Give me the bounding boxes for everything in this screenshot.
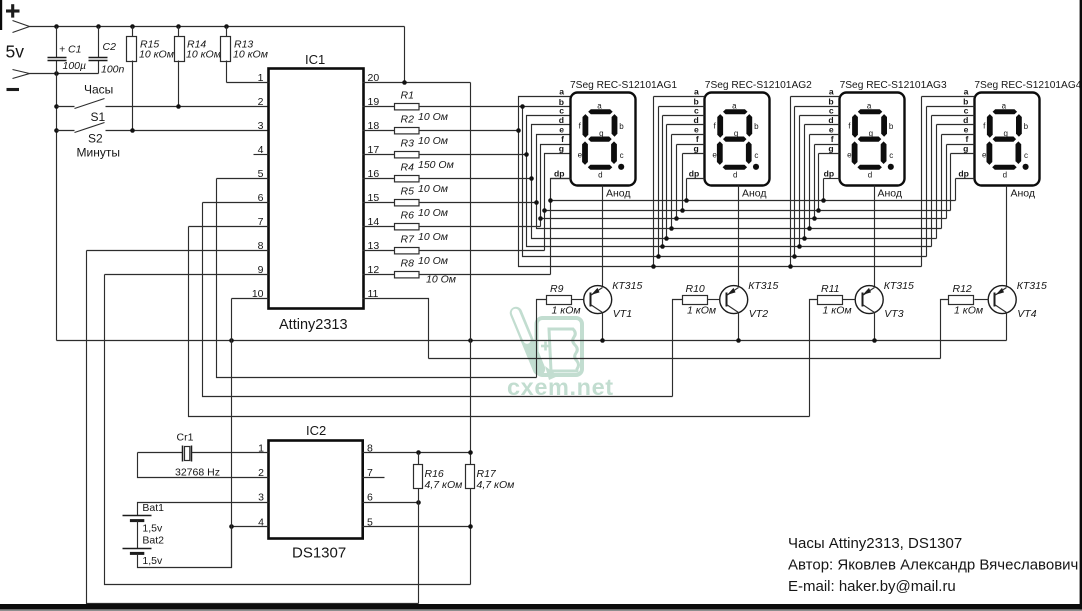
svg-text:Минуты: Минуты bbox=[77, 146, 120, 160]
7-segment display HG3 7Seg REC-S12101AG3 bbox=[840, 80, 947, 186]
svg-text:R3: R3 bbox=[401, 138, 415, 150]
base feed wire VT2 bbox=[673, 300, 683, 397]
svg-text:c: c bbox=[754, 151, 758, 160]
node minus/C1 bbox=[54, 71, 59, 76]
node R3/c bbox=[524, 152, 529, 157]
pin b display3 bbox=[795, 106, 840, 108]
svg-text:R8: R8 bbox=[401, 258, 415, 270]
svg-text:a: a bbox=[1002, 101, 1007, 110]
node rail emitter VT2 bbox=[736, 338, 741, 343]
svg-text:КТ315: КТ315 bbox=[612, 280, 642, 292]
pin c display2 bbox=[663, 115, 705, 117]
svg-text:dp: dp bbox=[958, 169, 969, 179]
svg-text:f: f bbox=[966, 134, 969, 144]
svg-text:g: g bbox=[963, 144, 968, 154]
svg-text:3: 3 bbox=[258, 120, 264, 132]
resistor R10 bbox=[707, 299, 720, 301]
svg-text:КТ315: КТ315 bbox=[1017, 280, 1047, 292]
svg-text:dp: dp bbox=[689, 169, 700, 179]
svg-text:a: a bbox=[559, 87, 564, 97]
node R16 bottom bbox=[416, 500, 421, 505]
resistor R17 bbox=[466, 465, 475, 489]
anode wire display2 bbox=[738, 186, 740, 287]
node bus dp display2 bbox=[686, 179, 688, 201]
svg-text:7Seg REC-S12101AG3: 7Seg REC-S12101AG3 bbox=[840, 80, 947, 91]
svg-text:a: a bbox=[829, 87, 834, 97]
svg-text:10 Ом: 10 Ом bbox=[418, 207, 448, 219]
svg-text:c: c bbox=[1024, 151, 1028, 160]
svg-text:d: d bbox=[694, 115, 699, 125]
node R4/d bbox=[529, 176, 534, 181]
svg-text:a: a bbox=[694, 87, 699, 97]
svg-text:c: c bbox=[694, 106, 699, 116]
resistor R14 bbox=[178, 27, 180, 37]
wire pin5 bbox=[217, 178, 269, 180]
svg-text:КТ315: КТ315 bbox=[884, 280, 914, 292]
pin a display4 bbox=[922, 96, 975, 98]
emitter wire VT4 bbox=[1006, 313, 1008, 341]
svg-text:R1: R1 bbox=[401, 90, 414, 102]
svg-text:e: e bbox=[712, 150, 717, 159]
svg-text:1,5v: 1,5v bbox=[142, 523, 163, 535]
battery Bat1 bbox=[123, 515, 152, 517]
svg-text:S1: S1 bbox=[91, 110, 106, 124]
svg-text:VT1: VT1 bbox=[613, 308, 632, 320]
resistor R4 bbox=[363, 178, 395, 180]
svg-text:f: f bbox=[831, 134, 834, 144]
svg-text:a: a bbox=[867, 101, 872, 110]
svg-text:Анод: Анод bbox=[606, 188, 631, 200]
emitter wire VT2 bbox=[738, 313, 740, 341]
wire base line VT1 from pin5 bbox=[217, 179, 537, 378]
node bus f display3 bbox=[814, 145, 816, 219]
node bus dp bbox=[548, 198, 553, 203]
svg-text:d: d bbox=[733, 170, 737, 179]
node R1/b bbox=[520, 104, 525, 109]
svg-text:Часы Attiny2313, DS1307: Часы Attiny2313, DS1307 bbox=[788, 535, 962, 552]
IC IC2 DS1307 bbox=[269, 441, 363, 539]
pin e display2 bbox=[672, 134, 705, 136]
svg-text:dp: dp bbox=[824, 169, 835, 179]
wire pin8 IC2 bbox=[363, 452, 471, 454]
IC IC1 Attiny2313 bbox=[269, 69, 364, 309]
svg-text:DS1307: DS1307 bbox=[292, 545, 346, 562]
wire pin7 bbox=[189, 226, 269, 228]
node C2 top bbox=[96, 24, 101, 29]
pin b display2 bbox=[659, 106, 705, 108]
node rail/+5 column bbox=[468, 338, 473, 343]
node R15 top bbox=[130, 24, 135, 29]
resistor R7 bbox=[363, 250, 395, 252]
svg-text:b: b bbox=[889, 122, 894, 131]
wire pin7 stub NC bbox=[363, 477, 385, 479]
svg-text:g: g bbox=[599, 129, 603, 138]
wire pin9 bbox=[105, 274, 269, 276]
resistor R11 bbox=[843, 299, 856, 301]
pin g display4 bbox=[951, 153, 975, 155]
svg-text:d: d bbox=[598, 170, 602, 179]
wire pin10 bbox=[232, 298, 269, 300]
wire GND column bbox=[231, 299, 233, 568]
svg-text:C2: C2 bbox=[103, 41, 117, 53]
svg-text:e: e bbox=[964, 125, 969, 135]
anode wire display3 bbox=[874, 186, 876, 287]
wire segment-dp vertical display1 bbox=[551, 179, 571, 275]
svg-text:10 Ом: 10 Ом bbox=[418, 231, 448, 243]
svg-text:IC1: IC1 bbox=[305, 52, 325, 67]
node bus g display2 bbox=[682, 154, 684, 211]
svg-text:4,7 кОм: 4,7 кОм bbox=[425, 479, 463, 491]
wire switch column bbox=[56, 74, 58, 341]
node R16 top bbox=[416, 450, 421, 455]
svg-text:32768 Hz: 32768 Hz bbox=[175, 467, 220, 479]
pin d display3 bbox=[805, 124, 840, 126]
resistor R16 bbox=[418, 453, 420, 465]
pin e display3 bbox=[810, 134, 840, 136]
svg-text:b: b bbox=[1024, 122, 1029, 131]
svg-text:R11: R11 bbox=[821, 283, 839, 295]
pin dp display3 bbox=[824, 178, 840, 180]
svg-text:100n: 100n bbox=[101, 64, 125, 76]
resistor R2 bbox=[363, 130, 395, 132]
base feed wire VT1 bbox=[537, 300, 547, 378]
base feed wire VT3 bbox=[810, 300, 818, 417]
svg-text:+ C1: + C1 bbox=[59, 44, 81, 56]
svg-text:g: g bbox=[694, 144, 699, 154]
resistor R13 bbox=[226, 27, 228, 37]
wire battery return to pin4 bbox=[138, 527, 232, 568]
svg-text:c: c bbox=[889, 151, 893, 160]
svg-text:c: c bbox=[620, 151, 624, 160]
pin a display2 bbox=[654, 96, 705, 98]
anode wire display1 bbox=[602, 186, 604, 287]
node bus g display3 bbox=[818, 154, 820, 211]
wire bus g bbox=[545, 210, 951, 212]
svg-text:S2: S2 bbox=[88, 132, 103, 146]
wire minus rail bbox=[30, 73, 99, 75]
svg-text:10 Ом: 10 Ом bbox=[426, 274, 456, 286]
svg-text:c: c bbox=[964, 106, 969, 116]
pin c display4 bbox=[932, 115, 975, 117]
base feed wire VT4 bbox=[941, 300, 949, 359]
wire segment-d vertical display1 bbox=[532, 125, 937, 239]
svg-text:1 кОм: 1 кОм bbox=[823, 304, 852, 316]
svg-text:g: g bbox=[869, 129, 873, 138]
svg-text:d: d bbox=[963, 115, 968, 125]
svg-text:5v: 5v bbox=[6, 42, 25, 62]
node bus d display2 bbox=[666, 125, 668, 239]
minus terminal symbol bbox=[7, 88, 20, 91]
wire pin1 to R13 bbox=[227, 82, 269, 84]
svg-text:f: f bbox=[561, 134, 564, 144]
plus terminal symbol bbox=[6, 4, 20, 17]
transistor VT3 KT315 bbox=[855, 280, 914, 320]
wire base line VT3 from pin7 bbox=[189, 227, 810, 417]
svg-text:10 кОм: 10 кОм bbox=[233, 48, 268, 60]
pin f display4 bbox=[947, 144, 975, 146]
anode wire display4 bbox=[1006, 186, 1008, 287]
node R14 top bbox=[176, 24, 181, 29]
wire SDA bottom bbox=[105, 275, 471, 585]
pin dp display4 bbox=[956, 178, 975, 180]
svg-text:Автор: Яковлев Александр Вячес: Автор: Яковлев Александр Вячеславович bbox=[788, 557, 1078, 574]
wire +5V drop from rail bbox=[404, 27, 406, 83]
svg-text:g: g bbox=[1003, 129, 1007, 138]
node pin4/GND column bbox=[229, 524, 234, 529]
wire pin20 +5V bbox=[363, 82, 471, 84]
svg-text:Bat2: Bat2 bbox=[142, 535, 164, 547]
svg-text:e: e bbox=[694, 125, 699, 135]
node R14/S1 bbox=[176, 104, 181, 109]
resistor R1 bbox=[363, 106, 395, 108]
svg-text:g: g bbox=[734, 129, 738, 138]
svg-text:R9: R9 bbox=[550, 283, 564, 295]
transistor VT1 KT315 bbox=[584, 280, 643, 320]
video frame border marks bbox=[0, 0, 2, 30]
svg-text:dp: dp bbox=[554, 169, 565, 179]
node bus c display2 bbox=[662, 116, 664, 247]
svg-text:Cr1: Cr1 bbox=[177, 432, 194, 444]
node bus f bbox=[538, 216, 543, 221]
wire segment-f vertical display1 bbox=[541, 145, 571, 227]
svg-text:Часы: Часы bbox=[84, 83, 113, 97]
node bus f display2 bbox=[676, 145, 678, 219]
wire pin5 IC2 bbox=[363, 526, 471, 528]
transistor VT2 KT315 bbox=[720, 280, 779, 320]
wire +5V top rail bbox=[30, 26, 405, 28]
node bus b display3 bbox=[794, 107, 796, 257]
node bus dp display3 bbox=[823, 179, 825, 201]
svg-text:7Seg REC-S12101AG2: 7Seg REC-S12101AG2 bbox=[705, 80, 812, 91]
svg-text:a: a bbox=[597, 101, 602, 110]
resistor R3 bbox=[363, 154, 395, 156]
svg-text:d: d bbox=[868, 170, 872, 179]
wire bus f bbox=[541, 218, 947, 220]
node R2/a bbox=[516, 128, 521, 133]
node bus e display2 bbox=[671, 135, 673, 229]
minus input arrow bbox=[13, 70, 30, 79]
crystal Cr1 bbox=[138, 452, 183, 454]
svg-text:10 Ом: 10 Ом bbox=[418, 111, 448, 123]
svg-text:10 Ом: 10 Ом bbox=[418, 183, 448, 195]
svg-text:Attiny2313: Attiny2313 bbox=[279, 317, 348, 333]
pin d display2 bbox=[667, 124, 705, 126]
7-segment display HG4 7Seg REC-S12101AG4 bbox=[974, 80, 1081, 186]
svg-text:R5: R5 bbox=[401, 186, 415, 198]
switch S2 bbox=[54, 128, 59, 133]
svg-text:10 Ом: 10 Ом bbox=[418, 255, 448, 267]
svg-text:4,7 кОм: 4,7 кОм bbox=[477, 479, 515, 491]
node bus c display3 bbox=[799, 116, 801, 247]
watermark cxem.net bbox=[507, 313, 614, 401]
wire segment-b vertical display1 bbox=[523, 107, 927, 257]
node R17 top bbox=[468, 450, 473, 455]
7-segment display HG2 7Seg REC-S12101AG2 bbox=[705, 80, 813, 186]
node rail/GND column bbox=[229, 338, 234, 343]
wire pin3 to battery bbox=[138, 503, 269, 516]
svg-text:1 кОм: 1 кОм bbox=[954, 304, 983, 316]
wire segment-c vertical display1 bbox=[527, 116, 932, 247]
svg-text:d: d bbox=[1003, 170, 1007, 179]
svg-text:Анод: Анод bbox=[1011, 188, 1036, 200]
node C1 top bbox=[54, 24, 59, 29]
svg-text:R2: R2 bbox=[401, 114, 415, 126]
svg-text:a: a bbox=[964, 87, 969, 97]
wire crystal loop to pin2 bbox=[138, 453, 269, 478]
resistor R5 bbox=[363, 202, 395, 204]
svg-text:c: c bbox=[559, 106, 564, 116]
pin d display4 bbox=[937, 124, 975, 126]
svg-text:6: 6 bbox=[367, 492, 373, 504]
svg-text:b: b bbox=[754, 122, 759, 131]
emitter wire VT3 bbox=[874, 313, 876, 341]
svg-text:10 кОм: 10 кОм bbox=[139, 48, 174, 60]
capacitor C1 bbox=[56, 27, 58, 58]
wire segment-e vertical display1 bbox=[537, 135, 942, 229]
svg-text:R7: R7 bbox=[401, 234, 416, 246]
capacitor C2 bbox=[98, 27, 100, 58]
wire common rail bbox=[57, 340, 1007, 342]
svg-text:e: e bbox=[578, 150, 583, 159]
svg-text:150 Ом: 150 Ом bbox=[418, 159, 454, 171]
node bus d display3 bbox=[804, 125, 806, 239]
svg-text:КТ315: КТ315 bbox=[748, 280, 778, 292]
svg-text:IC2: IC2 bbox=[306, 423, 326, 438]
node rail emitter VT1 bbox=[600, 338, 605, 343]
wire pin6 IC2 bbox=[363, 502, 419, 504]
wire SCL bottom bbox=[87, 251, 419, 604]
svg-text:e: e bbox=[982, 150, 987, 159]
svg-text:10 Ом: 10 Ом bbox=[418, 135, 448, 147]
pin e display4 bbox=[942, 134, 975, 136]
pin dp display2 bbox=[687, 178, 705, 180]
svg-text:100µ: 100µ bbox=[63, 60, 87, 72]
pin f display3 bbox=[815, 144, 840, 146]
node R5/e bbox=[534, 200, 539, 205]
svg-text:c: c bbox=[829, 106, 834, 116]
wire segment-g vertical display1 bbox=[545, 154, 571, 251]
svg-text:d: d bbox=[828, 115, 833, 125]
svg-text:VT4: VT4 bbox=[1017, 308, 1036, 320]
resistor R15 bbox=[132, 27, 134, 37]
svg-text:e: e bbox=[559, 125, 564, 135]
svg-text:2: 2 bbox=[258, 96, 264, 108]
svg-text:7Seg REC-S12101AG4: 7Seg REC-S12101AG4 bbox=[974, 80, 1081, 91]
node bus e display3 bbox=[809, 135, 811, 229]
emitter wire VT1 bbox=[602, 313, 604, 341]
node rail emitter VT3 bbox=[872, 338, 877, 343]
svg-text:g: g bbox=[559, 144, 564, 154]
wire pin4 stub NC bbox=[254, 154, 269, 156]
wire base line VT4 from pin11 bbox=[429, 358, 941, 360]
svg-text:R12: R12 bbox=[953, 283, 972, 295]
svg-text:g: g bbox=[828, 144, 833, 154]
node R17 bottom bbox=[468, 524, 473, 529]
wire pin6 bbox=[203, 202, 269, 204]
pin g display2 bbox=[683, 153, 705, 155]
svg-text:Анод: Анод bbox=[742, 188, 767, 200]
node bus a display2 bbox=[653, 97, 655, 267]
resistor R12 bbox=[975, 299, 989, 301]
wire base line VT2 from pin6 bbox=[203, 203, 673, 397]
svg-text:f: f bbox=[696, 134, 699, 144]
svg-text:1 кОм: 1 кОм bbox=[552, 304, 581, 316]
svg-text:b: b bbox=[619, 122, 624, 131]
svg-text:e: e bbox=[847, 150, 852, 159]
svg-text:e: e bbox=[829, 125, 834, 135]
pin g display3 bbox=[819, 153, 840, 155]
node bus g bbox=[542, 208, 547, 213]
wire pin4 IC2 bbox=[232, 526, 269, 528]
pin a display3 bbox=[791, 96, 840, 98]
svg-text:R6: R6 bbox=[401, 210, 415, 222]
wire pin8 bbox=[87, 250, 269, 252]
svg-text:3: 3 bbox=[258, 492, 264, 504]
svg-text:Bat1: Bat1 bbox=[142, 502, 164, 514]
pin b display4 bbox=[927, 106, 975, 108]
svg-text:7Seg REC-S12101AG1: 7Seg REC-S12101AG1 bbox=[570, 80, 677, 91]
node R13 top bbox=[224, 24, 229, 29]
svg-text:E-mail: haker.by@mail.ru: E-mail: haker.by@mail.ru bbox=[788, 578, 956, 595]
wire +5V vertical to IC2 bbox=[470, 83, 472, 465]
wire pin11 to VT4 base line bbox=[363, 299, 429, 359]
svg-text:VT2: VT2 bbox=[749, 308, 768, 320]
transistor VT4 KT315 bbox=[988, 280, 1047, 320]
svg-text:10 кОм: 10 кОм bbox=[186, 48, 221, 60]
resistor R9 bbox=[572, 299, 584, 301]
plus input arrow bbox=[13, 21, 30, 33]
resistor R6 bbox=[363, 226, 395, 228]
svg-text:a: a bbox=[732, 101, 737, 110]
battery Bat2 bbox=[123, 548, 152, 550]
svg-text:d: d bbox=[559, 115, 564, 125]
svg-text:R10: R10 bbox=[686, 283, 705, 295]
pin f display2 bbox=[677, 144, 705, 146]
node pin20/+5V bbox=[402, 80, 407, 85]
svg-text:1 кОм: 1 кОм bbox=[687, 304, 716, 316]
node R15/S2 bbox=[130, 128, 135, 133]
node bus a display3 bbox=[790, 97, 792, 267]
switch S1 bbox=[54, 104, 59, 109]
svg-text:VT3: VT3 bbox=[884, 308, 903, 320]
pin c display3 bbox=[800, 115, 840, 117]
svg-text:Анод: Анод bbox=[878, 188, 903, 200]
resistor R8 bbox=[363, 274, 395, 276]
7-segment display HG1 7Seg REC-S12101AG1 bbox=[570, 80, 677, 186]
wire bus dp bbox=[551, 200, 956, 202]
node bus b display2 bbox=[658, 107, 660, 257]
svg-text:1,5v: 1,5v bbox=[142, 555, 163, 567]
wire segment-a vertical display1 bbox=[519, 97, 922, 267]
svg-text:R4: R4 bbox=[401, 162, 415, 174]
